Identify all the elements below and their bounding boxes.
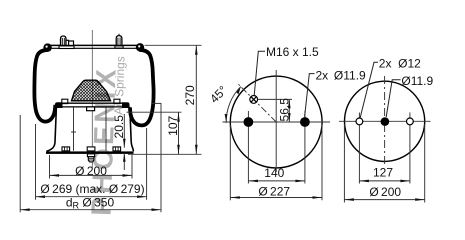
center hole (filled)	[381, 117, 390, 126]
leader 2x D12	[360, 62, 378, 117]
bottom bolt left	[62, 147, 70, 151]
piston clamp lip left	[55, 102, 63, 108]
hole left	[358, 113, 360, 184]
bottom bolt right	[113, 147, 121, 151]
bead left	[43, 43, 51, 51]
horizontal line at air port level	[258, 98, 292, 100]
circle right view	[345, 81, 425, 161]
dimension 56.5	[288, 99, 290, 122]
svg-text:Ø 200: Ø 200	[75, 164, 107, 178]
vertical centerline (dashed)	[384, 76, 386, 167]
stud 2	[118, 34, 120, 36]
vertical centerline	[275, 70, 277, 172]
piston wall right	[130, 107, 134, 151]
dimension D200 left view	[49, 155, 51, 179]
dimension 140	[248, 180, 305, 182]
bellows outline right side	[130, 50, 154, 126]
ext line piston top (y=112.9)	[127, 111, 182, 113]
svg-text:2x Ø12: 2x Ø12	[379, 57, 421, 71]
hole right	[409, 113, 411, 184]
circle middle view	[230, 76, 322, 168]
center bolt bottom	[87, 147, 95, 151]
rubber bumper (crosshatched)	[72, 80, 111, 101]
dimension 270	[195, 45, 197, 154]
dimension D200 right view	[343, 124, 345, 203]
dimension dR D350	[19, 115, 21, 212]
piston inner line right	[105, 107, 107, 151]
svg-text:270: 270	[183, 85, 197, 105]
bottom plate	[46, 151, 134, 154]
piston wall left	[47, 107, 57, 151]
bolt hole left (filled)	[247, 111, 249, 184]
air port symbol (circle with X)	[250, 96, 258, 104]
dimension 107	[178, 112, 180, 154]
horizontal centerline	[339, 120, 431, 122]
bumper nut	[87, 107, 95, 111]
svg-text:Ø 200: Ø 200	[369, 185, 401, 199]
svg-text:Ø11.9: Ø11.9	[401, 74, 433, 88]
svg-text:127: 127	[373, 165, 393, 179]
bumper plate step tab right	[114, 99, 120, 103]
leader D11.9 right	[386, 80, 400, 117]
bumper plate step tab left	[62, 99, 68, 103]
dashed 45deg line	[238, 84, 276, 122]
top plate	[47, 44, 141, 46]
bumper plate	[56, 102, 128, 104]
valve stud with fitting	[61, 36, 67, 45]
ext line top (y=45.3)	[145, 44, 202, 46]
svg-text:20.5: 20.5	[112, 115, 126, 139]
45deg arc dimension	[226, 87, 241, 123]
svg-text:Ø 269 (max. Ø 279): Ø 269 (max. Ø 279)	[40, 182, 144, 196]
centerline left view	[91, 30, 93, 168]
horizontal centerline	[223, 121, 331, 123]
svg-text:2x Ø11.9: 2x Ø11.9	[316, 68, 367, 82]
piston clamp lip right	[122, 102, 130, 108]
bellows outline left side	[34, 50, 55, 122]
svg-text:56.5: 56.5	[277, 98, 291, 122]
svg-text:Ø 227: Ø 227	[258, 185, 290, 199]
leader M16 x 1.5	[254, 51, 265, 95]
dimension 127	[359, 180, 410, 182]
svg-text:M16 x 1.5: M16 x 1.5	[266, 45, 319, 59]
leader 2x D11.9	[305, 74, 315, 117]
bolt hole right (filled)	[304, 111, 306, 184]
bead right	[136, 43, 144, 51]
dimension D269 (max D279)	[35, 124, 37, 200]
svg-text:107: 107	[166, 115, 180, 135]
dimension D227	[229, 125, 231, 201]
ext line bottom (y=154.3)	[128, 153, 202, 155]
dimension 20.5	[123, 114, 125, 148]
svg-text:140: 140	[264, 166, 284, 180]
piston inner line left	[73, 107, 75, 151]
